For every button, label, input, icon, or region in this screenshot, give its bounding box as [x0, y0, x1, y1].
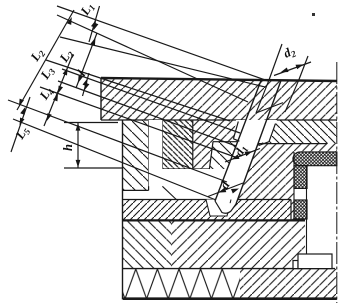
stray scan mark [312, 13, 315, 16]
middle support plate chevron [123, 221, 171, 269]
pin tip recess [206, 200, 231, 217]
dimension d1 [225, 149, 260, 163]
pin head edges [256, 81, 269, 114]
extension line E3 [46, 60, 230, 121]
wedge main block right of pin [237, 144, 336, 221]
dimension L5 [11, 97, 30, 152]
extension line E5 [58, 81, 236, 146]
dimension L2 outer [17, 10, 74, 110]
pin shaft edges [215, 81, 261, 202]
pin hole clearance steps [233, 122, 238, 139]
dimension h [77, 123, 79, 169]
dimension h extension lines [64, 122, 118, 124]
extension line E8 long [13, 119, 216, 200]
slider shoulder at pin [209, 142, 236, 169]
wedge left part [193, 120, 246, 169]
gasket bar crosshatched [293, 152, 337, 166]
band plate under slider [123, 200, 291, 222]
bottom clamp plate [123, 269, 240, 299]
extension line E1 head top [57, 6, 268, 81]
slider block [123, 120, 149, 190]
dimension d2 [274, 62, 311, 76]
svg-text:h: h [61, 144, 75, 151]
extension line E4 [62, 69, 240, 133]
extension line E2c counterbore [60, 37, 265, 87]
centerline [336, 62, 338, 303]
svg-text:L2: L2 [56, 46, 76, 66]
dimension d [208, 183, 243, 197]
slider pocket cavity [149, 120, 220, 200]
dimension L3 L4 chain [44, 54, 73, 126]
svg-text:d2: d2 [281, 43, 298, 62]
molded part column edge [306, 166, 308, 254]
extension line E7 long [8, 100, 227, 182]
dimension l [83, 73, 90, 96]
d2 extension lines [269, 44, 282, 81]
support ledge [293, 261, 298, 269]
top plate (fixed plate) [101, 78, 337, 120]
svg-text:L1: L1 [77, 0, 97, 19]
center insert block dense [162, 120, 192, 169]
gasket leg [294, 166, 307, 189]
small seal block [294, 200, 307, 219]
svg-text:L3: L3 [37, 63, 57, 83]
dimension L1 [89, 6, 100, 42]
extension line E2 head seat [57, 15, 248, 102]
upper right band plate [257, 120, 336, 144]
extension line E6 [40, 87, 235, 157]
dimension L2 inner [76, 33, 97, 88]
left edge of stack [122, 120, 124, 300]
angle pin white body [234, 120, 277, 143]
